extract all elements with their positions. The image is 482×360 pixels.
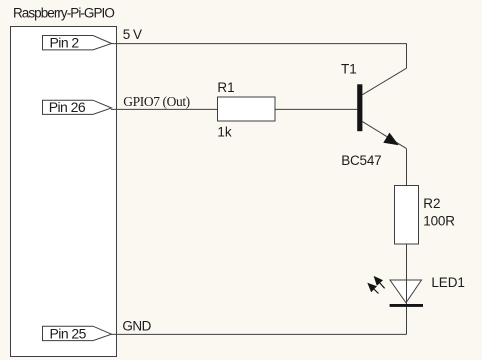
svg-text:T1: T1 <box>341 61 357 76</box>
wire emitter to R2 <box>406 149 408 186</box>
svg-text:LED1: LED1 <box>431 275 464 290</box>
LED light arrow 2 <box>367 283 378 294</box>
resistor R1 <box>218 97 276 121</box>
svg-text:1k: 1k <box>217 124 232 139</box>
pin flag Pin 25 <box>43 326 112 342</box>
wire LED to GND <box>406 307 408 335</box>
wire R2 to LED <box>406 244 408 280</box>
svg-text:Pin 26: Pin 26 <box>49 99 86 115</box>
LED light arrow 1 <box>374 276 385 288</box>
svg-text:GND: GND <box>122 319 151 334</box>
wire GND rail <box>111 333 407 335</box>
transistor T1 <box>357 68 406 148</box>
LED LED1 <box>390 280 423 307</box>
svg-text:BC547: BC547 <box>341 153 381 168</box>
svg-text:Pin 2: Pin 2 <box>50 35 80 51</box>
pin flag Pin 2 <box>43 35 112 51</box>
wire 5V rail <box>111 44 407 69</box>
svg-text:100R: 100R <box>423 213 455 228</box>
svg-text:5 V: 5 V <box>123 27 142 42</box>
connector box Raspberry-Pi-GPIO <box>11 27 117 357</box>
svg-text:R2: R2 <box>423 196 440 211</box>
wire GPIO7 base wire <box>111 108 357 110</box>
svg-text:R1: R1 <box>217 80 234 95</box>
svg-text:Pin 25: Pin 25 <box>50 326 87 342</box>
pin flag Pin 26 <box>43 99 112 115</box>
resistor R2 <box>395 186 419 245</box>
svg-text:Raspberry-Pi-GPIO: Raspberry-Pi-GPIO <box>13 6 114 21</box>
svg-text:GPIO7 (Out): GPIO7 (Out) <box>123 94 189 109</box>
